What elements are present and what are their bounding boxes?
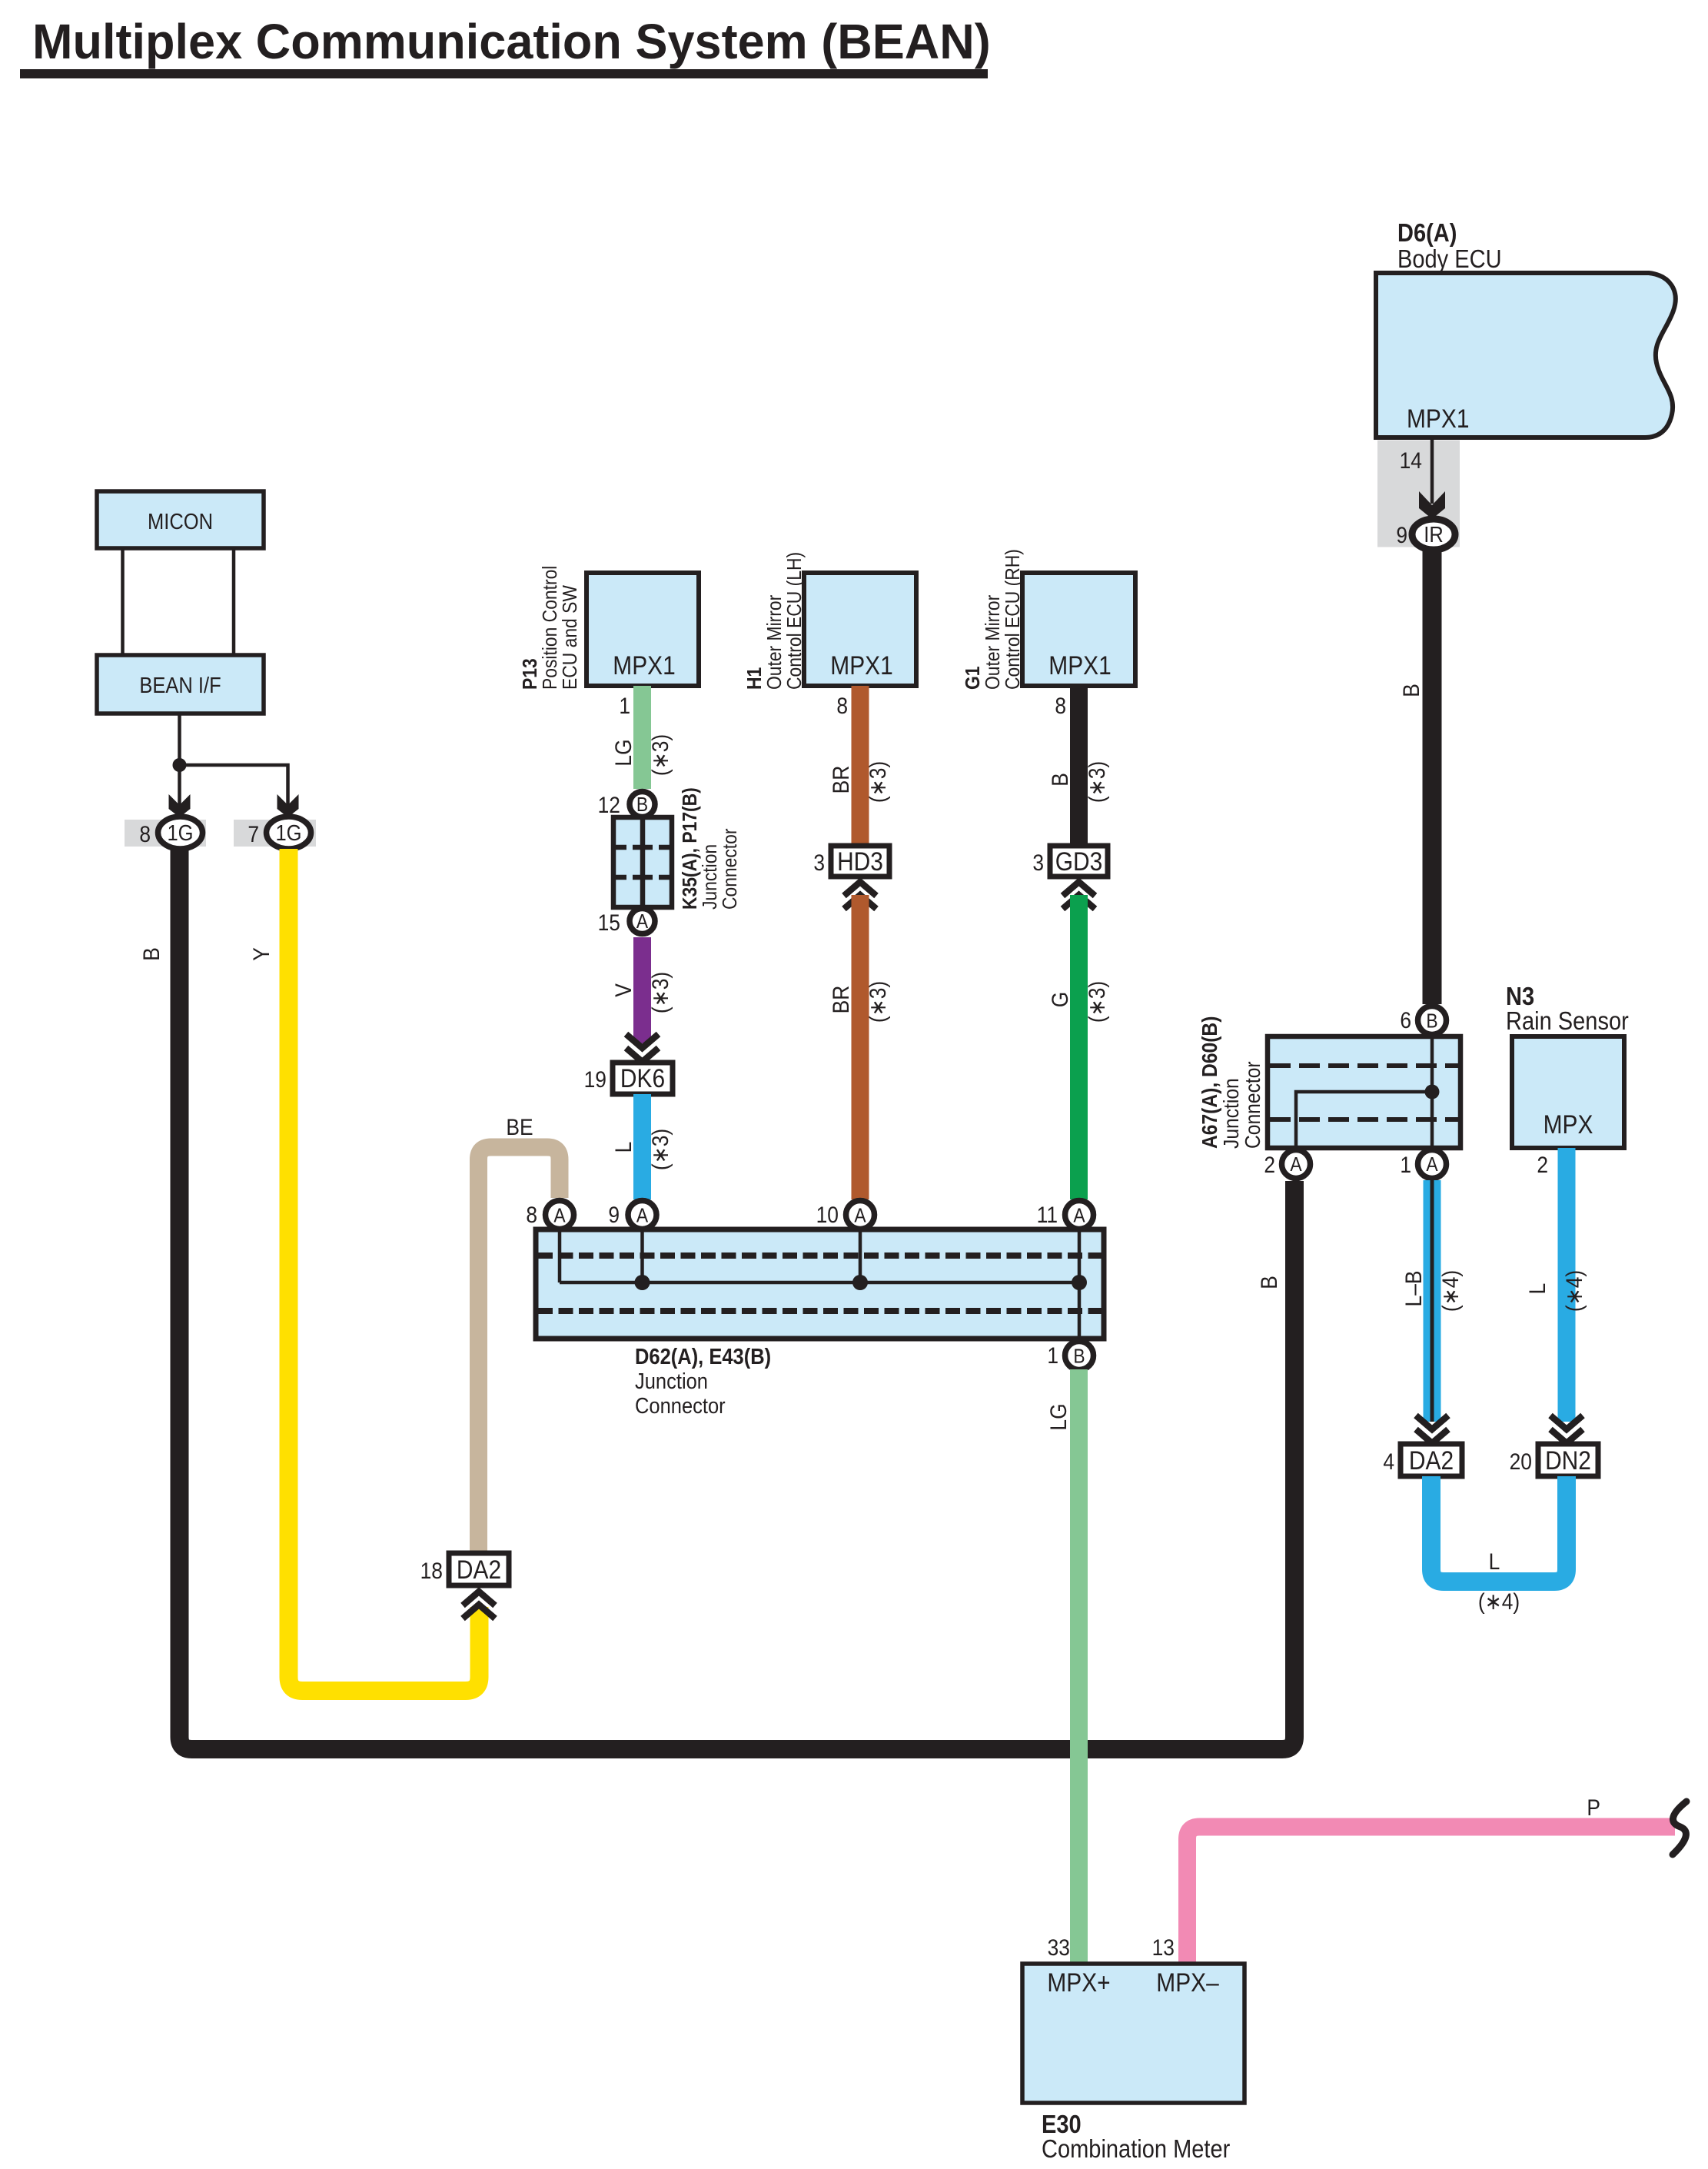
block E30 Combination Meter (1022, 1964, 1244, 2163)
svg-text:B: B (1397, 684, 1424, 697)
svg-text:Junction: Junction (699, 844, 722, 910)
wire LG P13 (633, 686, 651, 789)
svg-text:(∗3): (∗3) (864, 981, 890, 1023)
svg-text:BR: BR (827, 986, 853, 1014)
connector oval 1G pin 7 (267, 817, 311, 849)
connector GD3 (1050, 846, 1108, 877)
block MICON (97, 491, 264, 548)
svg-text:9: 9 (608, 1201, 620, 1227)
connector circle A pin 1 A67 (1418, 1150, 1447, 1179)
svg-text:Multiplex Communication System: Multiplex Communication System (BEAN) (32, 15, 991, 70)
svg-text:P: P (1587, 1794, 1600, 1820)
grey highlight pin 8 1G (125, 820, 206, 847)
svg-text:(∗4): (∗4) (1478, 1588, 1520, 1614)
svg-text:BEAN I/F: BEAN I/F (139, 672, 221, 697)
svg-text:3: 3 (1032, 849, 1044, 875)
svg-text:4: 4 (1383, 1448, 1394, 1474)
svg-text:Outer Mirror: Outer Mirror (764, 595, 786, 690)
svg-text:DA2: DA2 (457, 1555, 501, 1584)
wire BEAN I/F output (178, 714, 181, 806)
svg-text:MICON: MICON (148, 508, 213, 534)
svg-text:V: V (610, 983, 636, 997)
svg-text:L: L (1489, 1548, 1500, 1574)
svg-text:Y: Y (248, 947, 274, 961)
svg-text:Connector: Connector (719, 829, 742, 910)
wire L-B from A67 pin 1 (1424, 1180, 1441, 1422)
svg-text:1: 1 (1047, 1342, 1058, 1368)
svg-text:11: 11 (1037, 1201, 1058, 1227)
svg-text:MPX1: MPX1 (830, 650, 892, 680)
connector circle A pin 15 (630, 909, 655, 934)
svg-text:(∗4): (∗4) (1437, 1270, 1463, 1312)
svg-text:1G: 1G (275, 820, 301, 845)
svg-text:15: 15 (598, 909, 620, 935)
connector circle B pin 6 A67 (1418, 1006, 1447, 1035)
svg-text:(∗3): (∗3) (1083, 981, 1109, 1023)
svg-text:6: 6 (1400, 1006, 1411, 1033)
svg-text:(∗3): (∗3) (646, 972, 673, 1013)
block H1 Outer Mirror Control ECU (LH) (744, 552, 916, 690)
svg-text:A: A (636, 911, 649, 933)
svg-text:LG: LG (610, 739, 636, 766)
svg-text:L–B: L–B (1400, 1271, 1426, 1307)
svg-text:(∗3): (∗3) (646, 1129, 673, 1170)
svg-text:1: 1 (1400, 1151, 1411, 1177)
svg-text:33: 33 (1048, 1934, 1070, 1960)
connector oval IR (1412, 519, 1455, 550)
junction connector A67(A), D60(B) (1198, 1016, 1460, 1149)
svg-text:ECU and SW: ECU and SW (560, 584, 582, 690)
svg-text:Combination Meter: Combination Meter (1042, 2134, 1230, 2163)
grey highlight pin 14 / IR (1377, 441, 1460, 547)
svg-text:14: 14 (1400, 447, 1422, 473)
node junction dot (173, 758, 187, 772)
connector oval 1G pin 8 (158, 817, 203, 849)
svg-text:A: A (1073, 1205, 1085, 1227)
connector circle B pin 1 D62 (1065, 1342, 1094, 1370)
svg-text:MPX: MPX (1544, 1109, 1593, 1139)
junction connector K35(A), P17(B) (613, 787, 741, 910)
arrow chevrons out of DA2 pin 18 (463, 1592, 495, 1605)
svg-text:Control ECU (RH): Control ECU (RH) (1002, 549, 1025, 690)
svg-text:L: L (610, 1142, 636, 1153)
svg-text:B: B (138, 947, 164, 961)
svg-text:BE: BE (506, 1113, 533, 1139)
svg-text:B: B (636, 794, 648, 817)
svg-text:(∗4): (∗4) (1560, 1270, 1587, 1312)
svg-text:(∗3): (∗3) (646, 734, 673, 776)
wire BR lower (852, 895, 869, 1199)
svg-text:10: 10 (816, 1201, 839, 1227)
block G1 Outer Mirror Control ECU (RH) (962, 549, 1135, 690)
svg-text:3: 3 (813, 849, 825, 875)
svg-text:(∗3): (∗3) (1083, 761, 1109, 803)
svg-text:Outer Mirror: Outer Mirror (982, 595, 1005, 690)
svg-text:DK6: DK6 (620, 1063, 665, 1093)
connector circle A pin 2 A67 (1282, 1150, 1311, 1179)
svg-text:MPX+: MPX+ (1047, 1968, 1110, 1997)
svg-text:13: 13 (1152, 1934, 1175, 1960)
svg-text:(∗3): (∗3) (864, 761, 890, 803)
connector circle A pin 9 D62 (628, 1201, 656, 1229)
wire break squiggle P (1673, 1801, 1686, 1855)
svg-text:Body ECU: Body ECU (1397, 245, 1502, 273)
svg-text:2: 2 (1537, 1151, 1548, 1177)
svg-text:MPX–: MPX– (1156, 1968, 1219, 1997)
svg-text:B: B (1426, 1010, 1437, 1033)
arrow into IR (1419, 491, 1445, 519)
svg-text:12: 12 (598, 791, 620, 817)
svg-text:B: B (1046, 773, 1072, 787)
svg-text:BR: BR (827, 766, 853, 794)
svg-text:B: B (1255, 1276, 1281, 1289)
wire BR upper (852, 686, 869, 846)
svg-text:A: A (553, 1205, 566, 1227)
block BEAN I/F (97, 655, 264, 714)
svg-text:A: A (636, 1205, 649, 1227)
connector DA2 pin 4 (1401, 1444, 1462, 1476)
wire G (1070, 895, 1088, 1199)
svg-text:A: A (854, 1205, 866, 1227)
svg-text:MPX1: MPX1 (1048, 650, 1111, 680)
arrow chevrons into DK6 (626, 1034, 659, 1048)
svg-text:P13: P13 (520, 658, 542, 690)
svg-text:19: 19 (584, 1066, 606, 1092)
svg-text:DN2: DN2 (1545, 1445, 1591, 1475)
wire P from E30 pin 13 (1188, 1827, 1676, 1964)
wire V (633, 937, 651, 1043)
svg-text:Rain Sensor: Rain Sensor (1506, 1006, 1629, 1035)
connector HD3 (831, 846, 889, 877)
svg-text:8: 8 (1055, 692, 1066, 718)
svg-text:MPX1: MPX1 (1407, 404, 1469, 433)
svg-text:20: 20 (1510, 1448, 1532, 1474)
svg-text:Connector: Connector (635, 1392, 726, 1418)
svg-text:2: 2 (1264, 1151, 1275, 1177)
svg-text:Control ECU (LH): Control ECU (LH) (784, 552, 806, 690)
svg-text:1: 1 (619, 692, 630, 718)
connector circle A pin 10 D62 (846, 1201, 875, 1229)
wire L from N3 (1558, 1148, 1576, 1422)
svg-text:A: A (1426, 1154, 1438, 1176)
block N3 Rain Sensor (1506, 982, 1629, 1148)
svg-text:IR: IR (1424, 521, 1444, 547)
wire L loop DA2 to DN2 (1431, 1476, 1567, 1582)
connector DN2 pin 20 (1538, 1444, 1598, 1476)
svg-text:LG: LG (1045, 1403, 1071, 1430)
connector circle B pin 12 (630, 792, 655, 817)
svg-text:7: 7 (248, 820, 259, 847)
svg-text:1G: 1G (167, 820, 193, 845)
title Multiplex Communication System (BEAN) (20, 15, 991, 78)
wire B G1 (1070, 686, 1088, 846)
arrow chevrons out of HD3 (844, 882, 876, 896)
svg-text:GD3: GD3 (1055, 847, 1103, 876)
connector circle A pin 11 D62 (1065, 1201, 1094, 1229)
wire MICON to BEAN I/F right (232, 548, 236, 655)
svg-text:Position Control: Position Control (540, 566, 562, 690)
wire B from 1G pin 8 to A67 pin 2 (180, 849, 1295, 1749)
svg-text:K35(A), P17(B): K35(A), P17(B) (680, 787, 702, 910)
svg-text:G1: G1 (962, 666, 985, 690)
arrow into 1G pin 7 (277, 794, 299, 817)
arrow chevrons into DA2 pin 4 (1416, 1416, 1448, 1429)
block D6(A) Body ECU (1376, 218, 1676, 437)
svg-text:G: G (1046, 992, 1072, 1008)
svg-text:MPX1: MPX1 (613, 650, 675, 680)
svg-text:Connector: Connector (1241, 1061, 1265, 1149)
svg-text:D6(A): D6(A) (1397, 218, 1457, 247)
wire LG from D62 pin 1 to E30 pin 33 (1070, 1369, 1088, 1964)
wire pin 14 to IR (1431, 437, 1434, 504)
wire BE from D62 pin 8 to DA2 pin 18 (479, 1147, 560, 1553)
svg-text:8: 8 (526, 1201, 537, 1227)
svg-text:Junction: Junction (635, 1368, 708, 1393)
svg-text:8: 8 (836, 692, 848, 718)
junction connector D62(A), E43(B) (536, 1229, 1104, 1418)
arrow chevrons into DN2 (1550, 1416, 1583, 1429)
svg-text:HD3: HD3 (837, 847, 883, 876)
svg-text:B: B (1073, 1346, 1085, 1368)
svg-text:A: A (1290, 1154, 1302, 1176)
arrow into 1G pin 8 (169, 794, 191, 817)
svg-text:9: 9 (1396, 521, 1407, 547)
arrow chevrons out of GD3 (1063, 882, 1095, 896)
svg-text:8: 8 (139, 820, 151, 847)
connector circle A pin 8 D62 (546, 1201, 574, 1229)
svg-text:D62(A), E43(B): D62(A), E43(B) (635, 1343, 771, 1369)
svg-text:L: L (1524, 1283, 1550, 1295)
grey highlight pin 7 1G (234, 820, 316, 847)
svg-text:H1: H1 (744, 667, 766, 690)
wire B body ECU to A67 pin 6 (1423, 550, 1442, 1004)
wire MICON to BEAN I/F left (121, 548, 125, 655)
wire Y from 1G pin 7 to DA2 (289, 849, 480, 1691)
svg-text:18: 18 (420, 1557, 443, 1583)
wire L P13 chain (633, 1094, 651, 1199)
connector DA2 pin 18 (449, 1553, 509, 1585)
block P13 Position Control ECU and SW (520, 566, 699, 690)
wire branch to 1G pin 7 (180, 765, 288, 806)
connector DK6 (613, 1063, 673, 1094)
svg-text:DA2: DA2 (1409, 1445, 1454, 1475)
